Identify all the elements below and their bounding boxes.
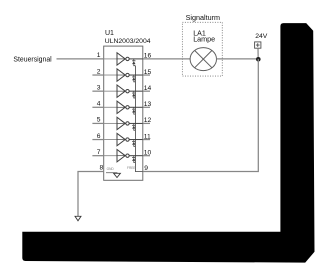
wire 24V node down to pin 9 (143, 59, 258, 172)
svg-text:U1: U1 (105, 30, 114, 37)
value label ULN2003/2004 (105, 38, 151, 45)
pin number 11 (144, 133, 151, 140)
reference designator U1 (105, 30, 114, 37)
wire pin 16 to lamp (143, 58, 191, 60)
flyback diode channel 6 (132, 140, 135, 147)
pin number 10 (144, 149, 152, 156)
wire buffer 6 output to pin 11 (129, 139, 143, 141)
buffer/inverter channel 1 of U1 (117, 53, 129, 65)
wire pin 10 output stub (143, 155, 150, 157)
wire inside U1 to buffer 5 (104, 122, 117, 124)
wire buffer 2 output to pin 15 (129, 74, 143, 76)
wire pin 5 input stub (92, 122, 103, 124)
svg-text:3: 3 (97, 84, 101, 91)
lamp LA1 (190, 48, 216, 71)
svg-text:FREE: FREE (127, 166, 136, 170)
flyback diode channel 2 (132, 75, 135, 82)
svg-text:5: 5 (97, 117, 101, 124)
pin number 15 (144, 69, 152, 76)
svg-text:Signalturm: Signalturm (186, 13, 220, 22)
supply label 24V (255, 33, 268, 40)
flyback diode channel 3 (132, 91, 135, 98)
reference designator LA1 (193, 30, 206, 38)
svg-text:8: 8 (99, 164, 103, 171)
enclosure label Signalturm (186, 13, 220, 22)
enclosure dashed box Signalturm (182, 22, 222, 76)
wire inside U1 to buffer 3 (104, 90, 117, 92)
wire inside U1 to buffer 1 (104, 58, 117, 60)
wire pin 1 input stub (57, 58, 104, 60)
wire pin 4 input stub (92, 106, 103, 108)
pin number 9 (144, 165, 148, 172)
pin 8 internal ground arrow inside U1 (106, 173, 120, 178)
pin number 13 (144, 101, 152, 108)
wire buffer 1 output to pin 16 (129, 58, 143, 60)
wire pin 12 output stub (143, 122, 150, 124)
wire pin 11 output stub (143, 139, 150, 141)
pin number 2 (97, 68, 101, 75)
pin number 12 (144, 117, 152, 124)
wire pin 15 output stub (143, 74, 150, 76)
pin number 3 (97, 84, 101, 91)
pin number 14 (144, 85, 152, 92)
IC U1 package outline (104, 46, 143, 180)
flyback diode channel 4 (132, 107, 135, 114)
pin number 16 (144, 53, 152, 60)
svg-text:1: 1 (97, 52, 101, 59)
wire lamp to 24V node (216, 58, 258, 60)
wire pin 8 to ground (78, 172, 104, 217)
svg-text:ULN2003/2004: ULN2003/2004 (105, 38, 151, 45)
svg-text:GND: GND (107, 167, 115, 171)
pin 8 GND label inside U1 (107, 167, 115, 171)
value label Lampe (193, 35, 215, 44)
wire inside U1 to buffer 6 (104, 139, 117, 141)
svg-text:4: 4 (97, 101, 101, 108)
svg-text:9: 9 (144, 165, 148, 172)
pin 9 FREE label inside U1 (127, 166, 136, 170)
svg-text:2: 2 (97, 68, 101, 75)
svg-text:7: 7 (97, 149, 101, 156)
buffer/inverter channel 5 of U1 (117, 117, 129, 129)
flyback diode channel 5 (132, 123, 135, 130)
pin number 7 (97, 149, 101, 156)
ground symbol (75, 216, 81, 221)
buffer/inverter channel 6 of U1 (117, 133, 129, 145)
supply terminal symbol 24V (255, 42, 261, 59)
wire pin 2 input stub (92, 74, 103, 76)
wire pin 3 input stub (92, 90, 103, 92)
svg-text:Steuersignal: Steuersignal (13, 56, 52, 63)
node junction dot 24V (256, 57, 261, 62)
buffer/inverter channel 3 of U1 (117, 85, 129, 97)
flyback diode channel 7 (132, 156, 135, 163)
svg-text:6: 6 (97, 133, 101, 140)
node label Steuersignal (13, 56, 52, 63)
wire buffer 7 output to pin 10 (129, 155, 143, 157)
svg-text:Lampe: Lampe (193, 35, 215, 44)
wire pin 7 input stub (92, 155, 103, 157)
wire buffer 4 output to pin 13 (129, 106, 143, 108)
wire buffer 3 output to pin 14 (129, 90, 143, 92)
common freewheeling rail to pin 9 (135, 66, 142, 172)
wire inside U1 to buffer 4 (104, 106, 117, 108)
wire inside U1 to buffer 2 (104, 74, 117, 76)
wire pin 13 output stub (143, 106, 150, 108)
svg-text:24V: 24V (255, 33, 268, 40)
pin number 8 (99, 164, 103, 171)
pin number 4 (97, 101, 101, 108)
buffer/inverter channel 2 of U1 (117, 69, 129, 81)
pin number 5 (97, 117, 101, 124)
buffer/inverter channel 7 of U1 (117, 149, 129, 161)
wire buffer 5 output to pin 12 (129, 122, 143, 124)
pin number 6 (97, 133, 101, 140)
wire inside U1 to buffer 7 (104, 155, 117, 157)
flyback diode channel 1 (132, 59, 135, 66)
buffer/inverter channel 4 of U1 (117, 101, 129, 113)
wire pin 6 input stub (92, 139, 103, 141)
wire pin 14 output stub (143, 90, 150, 92)
pin number 1 (97, 52, 101, 59)
